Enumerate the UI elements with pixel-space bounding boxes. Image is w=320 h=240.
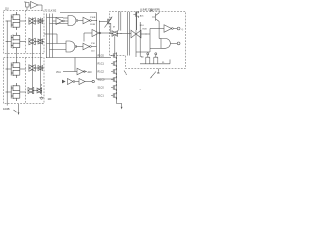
wire nand input b: [50, 23, 69, 25]
junction: [146, 34, 147, 35]
wire: [127, 12, 129, 56]
inverter U3: [83, 17, 90, 24]
nand gate U5: [66, 41, 75, 52]
junction: [121, 33, 122, 34]
wire and input b: [150, 47, 161, 49]
wire: [84, 71, 88, 73]
svg-text:110: 110: [91, 50, 95, 52]
transmission gate TG7: [28, 88, 34, 94]
inverter U6: [83, 43, 90, 50]
wire: [75, 81, 79, 83]
wire gate bar: [135, 30, 137, 38]
svg-text:30: 30: [157, 73, 160, 75]
svg-text:A6: A6: [141, 55, 144, 58]
transmission gate TG6: [38, 66, 43, 71]
wire: [83, 33, 85, 42]
svg-text:R1C1: R1C1: [98, 63, 105, 66]
wire: [129, 12, 131, 56]
wire: [35, 41, 38, 43]
wire: [63, 71, 77, 73]
wire: [135, 12, 137, 31]
wire M1 gate feed: [100, 21, 106, 23]
svg-text:P10: P10: [91, 43, 96, 45]
svg-text:110B: 110B: [90, 24, 95, 26]
wire leg: [157, 60, 159, 64]
wire from latch: [44, 33, 57, 35]
transistor Q12: [155, 53, 157, 55]
junction: [96, 20, 97, 21]
svg-text:S1C0: S1C0: [98, 87, 105, 90]
wire data rail: [6, 21, 8, 106]
leader dashed: [41, 84, 43, 97]
wire: [149, 29, 151, 53]
buffer U7: [77, 68, 84, 75]
transistor Q14: [111, 60, 116, 67]
latch cell 2 transistors Q3 Q4: [6, 41, 12, 43]
wire: [76, 46, 83, 48]
svg-text:W1C0: W1C0: [98, 79, 106, 82]
wire top rail: [60, 12, 97, 14]
terminal O1: [177, 27, 180, 30]
wire: [101, 32, 110, 34]
wire: [53, 20, 57, 22]
wire: [171, 42, 178, 44]
arrowhead down: [18, 112, 20, 115]
wire: [136, 51, 150, 53]
wire: [136, 17, 138, 30]
wire vertical bus B: [99, 21, 101, 58]
svg-text:100: 100: [48, 99, 53, 101]
wire leg: [153, 60, 155, 64]
svg-text:110: 110: [5, 8, 9, 10]
wire nand2 input b: [50, 49, 67, 51]
input pad box: [26, 3, 30, 8]
transistor Q16: [111, 76, 116, 83]
wire: [84, 32, 92, 34]
wire hook: [169, 60, 171, 64]
wire under TG9: [114, 36, 116, 53]
wire: [110, 33, 113, 35]
wire: [139, 22, 141, 57]
wire chain bottom: [117, 98, 122, 107]
wire under TG10: [135, 38, 137, 57]
terminal 100: [40, 97, 44, 99]
wire: [158, 29, 160, 39]
transmission gate TG1: [29, 18, 35, 25]
svg-text:A01: A01: [140, 15, 145, 18]
wire leg: [145, 60, 147, 64]
wire: [64, 20, 68, 22]
wire: [91, 20, 96, 22]
junction: [46, 57, 47, 58]
wire stub: [158, 69, 160, 72]
wire CK feed 2: [120, 12, 122, 31]
svg-text:100B: 100B: [3, 107, 10, 111]
transistor Q10: [152, 12, 159, 23]
stub with dot: [124, 71, 126, 74]
transistor Q17: [111, 84, 116, 91]
wire row to chain: [47, 57, 97, 59]
transmission gate TG4: [38, 39, 43, 44]
wire clock line 1: [46, 14, 48, 58]
wire: [34, 90, 37, 92]
transmission gate TG2: [38, 19, 43, 24]
input arrow: [62, 80, 66, 84]
svg-text:P10B: P10B: [90, 17, 96, 19]
wire: [150, 28, 164, 30]
wire bottom rail: [140, 63, 170, 65]
transistor Q13: [111, 52, 116, 59]
line driver dashed box: [110, 12, 186, 69]
junction: [99, 21, 100, 22]
wire nand2 input a: [47, 43, 67, 45]
svg-text:M: M: [113, 27, 115, 29]
wire: [43, 41, 44, 43]
wire: [56, 34, 58, 44]
inverter U4: [92, 30, 99, 37]
wire: [110, 26, 112, 34]
svg-text:R1C2: R1C2: [98, 71, 105, 74]
arrowhead: [121, 107, 123, 110]
leader arrow: [14, 110, 17, 112]
wire: [38, 4, 42, 6]
wire: [158, 23, 160, 29]
wire: [141, 33, 150, 35]
terminal O2: [177, 42, 180, 45]
transmission gate TG10: [131, 30, 141, 38]
wire drop: [74, 58, 76, 72]
latch block dashed box upper: [4, 11, 45, 54]
latch block dashed box lower: [4, 58, 45, 104]
transistor Q9: [133, 11, 138, 18]
transistor Q18: [111, 92, 116, 99]
buffer U9: [79, 79, 85, 85]
wire and input a: [159, 38, 161, 40]
wire nand input a: [47, 17, 64, 19]
wire: [35, 67, 38, 69]
wire to chain gate: [97, 78, 115, 80]
wire: [91, 46, 96, 48]
nand gate U2: [68, 16, 76, 26]
latch cell 4 transistors Q7 Q8: [6, 91, 12, 93]
wire: [41, 5, 43, 11]
wire TG column bar A: [31, 18, 33, 95]
svg-text:VCA: VCA: [56, 71, 61, 74]
wire: [118, 33, 131, 35]
wire: [26, 7, 28, 11]
wire chain channel: [116, 53, 118, 99]
wire: [85, 81, 92, 83]
buffer U0: [31, 2, 39, 9]
and gate U11: [161, 39, 170, 49]
wire VDD rail gap: [15, 51, 17, 61]
transmission gate TG3: [29, 38, 35, 45]
wire leg: [149, 60, 151, 64]
svg-text:R10: R10: [140, 25, 145, 27]
inverter U10: [164, 25, 172, 33]
inverter U1: [56, 18, 63, 25]
transmission gate TG8: [37, 88, 42, 93]
wire: [35, 20, 38, 22]
svg-text:~: ~: [140, 88, 142, 91]
wire bus down: [96, 58, 98, 80]
internal dashed divider upper: [25, 11, 27, 54]
internal dashed divider lower: [25, 58, 27, 104]
svg-text:R1B: R1B: [143, 29, 148, 31]
transistor M1: [105, 17, 111, 26]
latch cell 1 transistors Q1 Q2: [6, 20, 12, 22]
leader arrow 30: [151, 72, 156, 78]
wire clock line 2: [49, 14, 51, 58]
terminal T1: [92, 80, 94, 82]
svg-text:S1C1: S1C1: [98, 95, 105, 98]
wire to bitline: [18, 104, 20, 113]
transistor Q11: [147, 53, 149, 55]
transistor Q15: [111, 68, 116, 75]
wire: [29, 4, 31, 6]
transmission gate TG9: [112, 31, 118, 37]
wire clock line 3: [52, 14, 54, 58]
wire: [173, 28, 177, 30]
wire TG column bar B: [39, 18, 41, 95]
junction dot: [158, 72, 159, 73]
wire vertical bus A: [96, 13, 98, 58]
latch cell 3 transistors Q5 Q6: [6, 68, 12, 70]
svg-text:Q: Q: [182, 29, 184, 31]
wire: [43, 67, 44, 69]
junction: [99, 33, 100, 34]
svg-text:A10: A10: [88, 71, 93, 74]
wire chain top feed: [97, 57, 112, 59]
wire: [43, 20, 44, 22]
wire: [78, 20, 83, 22]
wire CK feed 1: [118, 12, 120, 31]
svg-text:T2 CLK B2: T2 CLK B2: [45, 9, 57, 12]
transmission gate TG5: [29, 65, 35, 72]
inverter U8: [68, 79, 74, 85]
